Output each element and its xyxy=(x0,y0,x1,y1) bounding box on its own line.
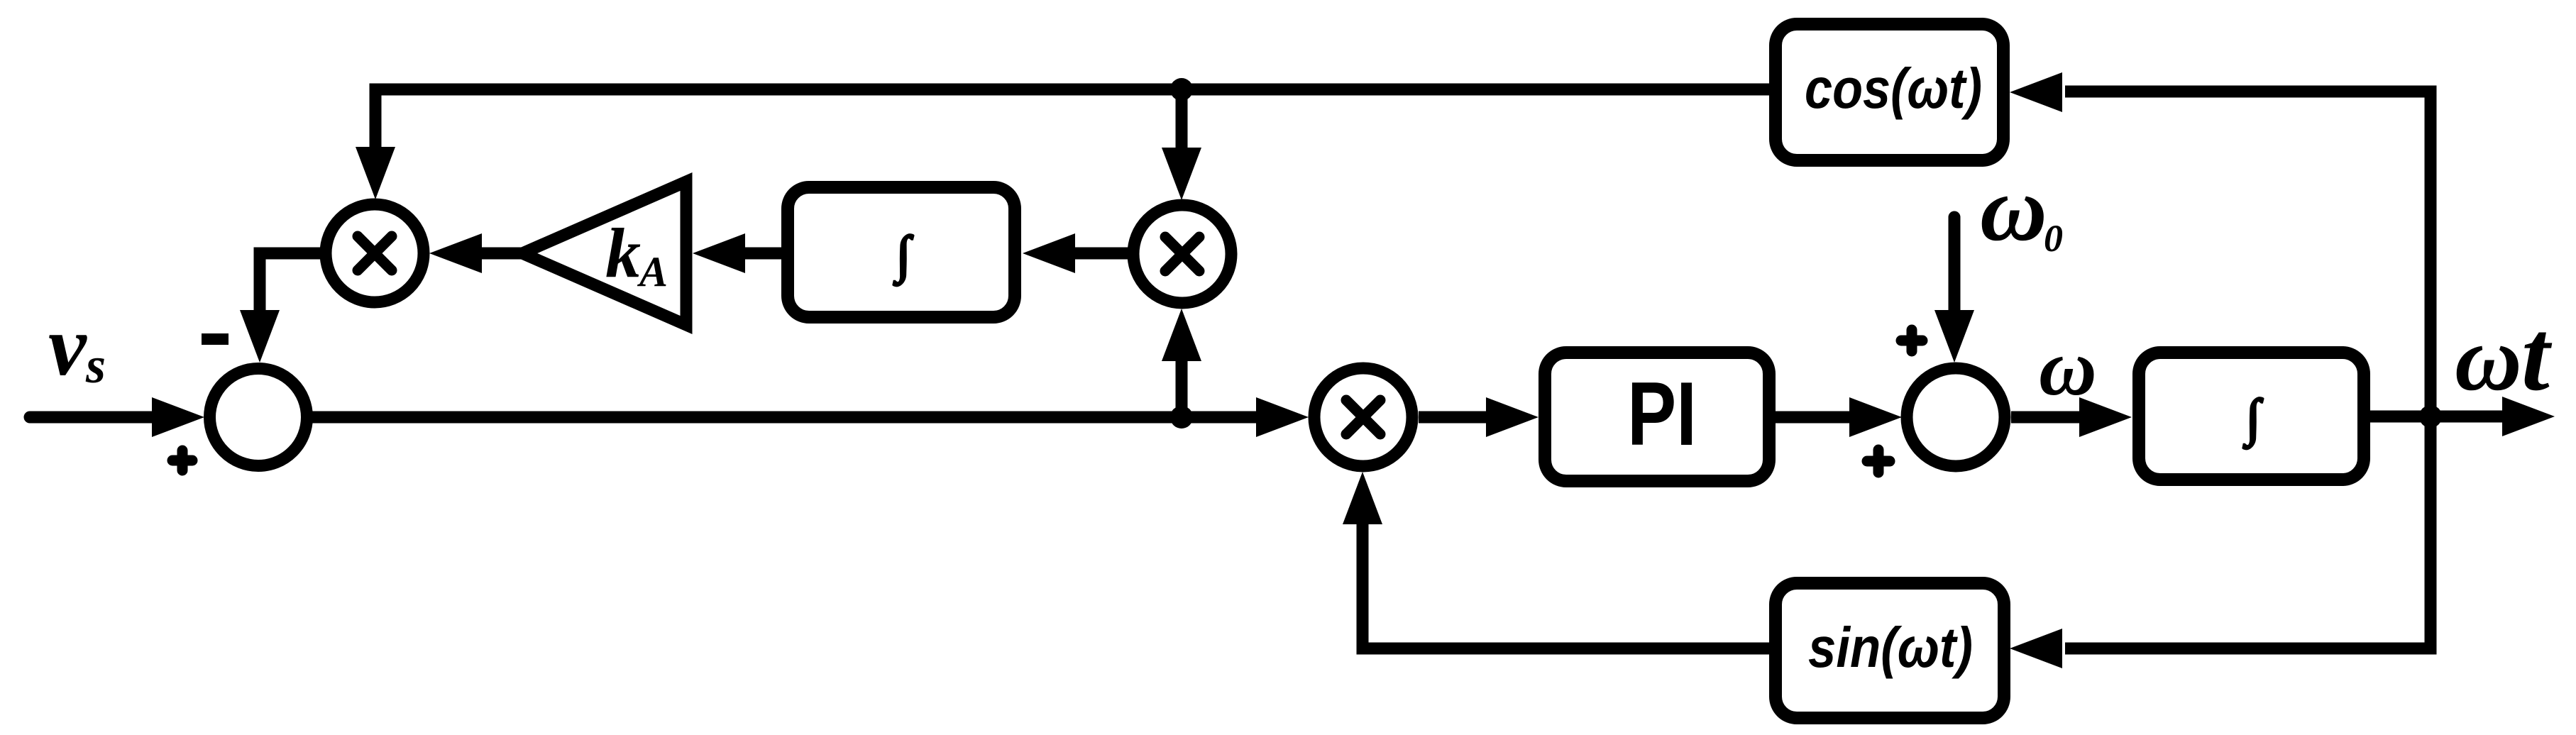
wire: integrator I2 output to output arrow xyxy=(2370,411,2505,423)
junction dot top (above X2) xyxy=(1170,78,1193,101)
svg-text:ω: ω xyxy=(2039,324,2097,412)
arrowhead into sum S1 left xyxy=(152,397,204,437)
wire: kA output to X1 multiplier xyxy=(482,248,522,260)
svg-text:t: t xyxy=(2521,299,2553,411)
arrowhead into sum S1 top (down) xyxy=(240,310,280,363)
cos block xyxy=(1776,24,2003,160)
wire: PI output to sum S2 xyxy=(1776,411,1852,424)
wire: top junction to X2 multiplier down segment xyxy=(1176,89,1188,153)
arrowhead into sin right (left-pointing) xyxy=(2010,629,2062,668)
arrowhead into sum S2 top (down) xyxy=(1934,310,1974,363)
arrowhead into X3 left (right-pointing) xyxy=(1256,397,1309,437)
sum junction S1 xyxy=(210,369,307,466)
wire: top feedback horizontal from cos block to left corner xyxy=(375,89,1769,153)
wire: X2 output left to integrator I1 xyxy=(1075,248,1130,260)
svg-text:s: s xyxy=(85,337,106,394)
svg-text:ω: ω xyxy=(1980,157,2047,260)
integrator I1 block xyxy=(788,187,1015,317)
X1 cross glyph xyxy=(358,236,392,270)
plus sign at sum S2 bottom xyxy=(1867,456,1890,467)
X2 cross glyph xyxy=(1165,237,1199,271)
svg-text:A: A xyxy=(637,248,668,295)
arrowhead into X2 bottom (up) xyxy=(1162,309,1201,361)
wire: input vs to sum S1 xyxy=(30,411,158,424)
arrowhead into integrator I2 left (right-pointing) xyxy=(2079,397,2132,437)
svg-text:PI: PI xyxy=(1627,363,1697,464)
integrator I2 block xyxy=(2139,353,2364,480)
arrowhead into cos right (left-pointing) xyxy=(2010,72,2062,112)
arrowhead output wt (right-pointing) xyxy=(2502,397,2555,436)
X3 cross glyph xyxy=(1346,400,1380,434)
multiplier X3 xyxy=(1314,368,1412,466)
svg-text:v: v xyxy=(48,299,87,394)
wire: sum S2 output to integrator I2 xyxy=(2011,411,2082,424)
svg-text:∫: ∫ xyxy=(2243,389,2263,449)
arrowhead into sum S2 left (right-pointing) xyxy=(1849,397,1902,437)
wire: X3 output to PI block xyxy=(1419,411,1489,424)
arrowhead into PI left (right-pointing) xyxy=(1486,397,1539,437)
svg-text:k: k xyxy=(605,214,641,292)
multiplier X1 xyxy=(326,204,424,302)
wire: far right channel (top corner, vertical, sin corner) xyxy=(2065,92,2431,648)
sum junction S2 xyxy=(1907,368,2005,466)
amplifier kA triangle xyxy=(522,182,686,325)
svg-text:0: 0 xyxy=(2044,217,2063,260)
wire: main junction up to X2 bottom xyxy=(1176,357,1188,417)
svg-text:cos(ωt): cos(ωt) xyxy=(1805,57,1982,120)
wire: sin block output left then up to X3 bottom xyxy=(1363,523,1769,648)
plus sign at sum S1 xyxy=(172,455,192,466)
wire: integrator I1 output to kA amplifier xyxy=(742,248,781,260)
junction dot output line xyxy=(2419,405,2442,428)
arrowhead into X3 bottom (up) xyxy=(1343,472,1382,524)
wire: sum S1 output to X3 multiplier main line xyxy=(307,411,1262,424)
sin block xyxy=(1776,583,2004,718)
svg-text:sin(ωt): sin(ωt) xyxy=(1808,616,1973,679)
junction dot main line (below X2) xyxy=(1170,406,1193,429)
PI block xyxy=(1545,353,1769,481)
wire: omega0 input down to sum S2 xyxy=(1949,217,1961,313)
arrowhead into X1 right (left-pointing) xyxy=(429,233,482,273)
arrowhead into X1 top (down) xyxy=(356,147,395,199)
wire: X1 output left then down to sum S1 minus input xyxy=(260,253,320,313)
arrowhead into kA right (left-pointing) xyxy=(693,233,745,273)
minus sign at sum S1 xyxy=(202,333,229,345)
svg-text:∫: ∫ xyxy=(893,226,913,286)
multiplier X2 xyxy=(1133,205,1231,303)
arrowhead into X2 top (down) xyxy=(1162,148,1201,200)
arrowhead into integrator I1 right (left-pointing) xyxy=(1023,233,1075,273)
svg-text:ω: ω xyxy=(2455,307,2522,410)
plus sign at sum S2 top xyxy=(1901,336,1922,346)
